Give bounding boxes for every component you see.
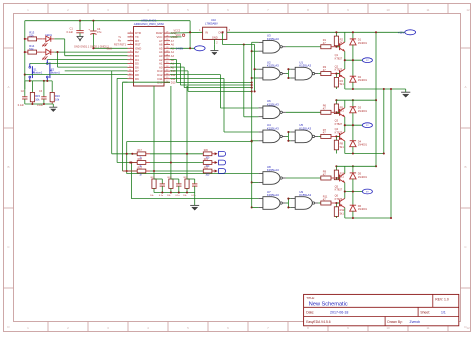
- transistor Q1: [336, 46, 339, 48]
- junction dot v190 gnd: [189, 47, 191, 49]
- wire U8 out: [286, 177, 321, 179]
- junction dots bases: [335, 46, 337, 75]
- wire mid node: [345, 124, 363, 126]
- svg-text:2: 2: [67, 8, 69, 12]
- svg-text:10: 10: [386, 326, 390, 330]
- junction dots bus2: [254, 68, 256, 92]
- svg-text:300: 300: [206, 175, 211, 177]
- svg-text:REV: 1.0: REV: 1.0: [435, 298, 449, 302]
- resistor R8: [335, 136, 337, 140]
- wire D13 down: [170, 71, 252, 92]
- wire D4 row: [47, 59, 127, 61]
- ground under C1: [77, 36, 84, 41]
- junction dots mid: [344, 124, 354, 126]
- svg-text:KT827: KT827: [335, 56, 343, 60]
- svg-text:C: C: [464, 245, 467, 249]
- junction dots bus: [251, 50, 253, 208]
- wire GND net: [93, 47, 127, 49]
- wire D10 stub: [123, 81, 171, 83]
- svg-text:R17: R17: [138, 150, 143, 152]
- svg-text:27: 27: [166, 32, 168, 34]
- svg-text:KT973: KT973: [335, 68, 343, 72]
- wire U9 out: [318, 202, 321, 204]
- svg-text:KT973: KT973: [335, 197, 343, 201]
- wire RC top link: [171, 178, 179, 180]
- svg-text:A5: A5: [171, 47, 175, 50]
- svg-text:23: 23: [166, 47, 168, 49]
- svg-text:OUT: OUT: [218, 31, 224, 35]
- svg-text:K155LA3: K155LA3: [267, 64, 279, 68]
- wire A5 to EN: [170, 47, 195, 49]
- wire couple: [286, 132, 291, 141]
- svg-text:1N4001: 1N4001: [358, 207, 368, 211]
- svg-text:Button1: Button1: [33, 70, 42, 74]
- resistor R15: [31, 81, 33, 93]
- diode D4: [352, 125, 354, 141]
- wire mid node: [345, 191, 363, 193]
- svg-text:+: +: [88, 27, 90, 31]
- wire input bus: [252, 42, 259, 207]
- nand gate U5: [291, 130, 319, 143]
- svg-text:10k: 10k: [35, 97, 40, 101]
- svg-text:1k: 1k: [139, 175, 142, 177]
- svg-text:0.1uF: 0.1uF: [67, 30, 74, 34]
- wire RC tap: [153, 86, 155, 179]
- svg-text:5k1: 5k1: [340, 145, 345, 149]
- wire base node2: [336, 135, 339, 137]
- junction dots debounce rail: [31, 103, 45, 105]
- wire rail3: [336, 165, 376, 167]
- svg-text:10k: 10k: [183, 195, 187, 197]
- wire U1 out: [318, 73, 321, 75]
- svg-text:KT973: KT973: [335, 130, 343, 134]
- junction dots row feeds: [126, 140, 253, 172]
- wire bus v122: [123, 82, 138, 171]
- net port OUT3: [215, 170, 218, 173]
- resistor R18: [137, 161, 146, 165]
- svg-text:R22: R22: [168, 177, 173, 179]
- wire mid node: [345, 59, 363, 61]
- wire RC top link: [154, 178, 162, 180]
- svg-text:10k: 10k: [150, 195, 154, 197]
- svg-text:47u: 47u: [97, 30, 102, 34]
- svg-text:New Schematic: New Schematic: [309, 302, 348, 308]
- diode D2: [352, 60, 354, 76]
- svg-text:20: 20: [166, 58, 168, 60]
- resistor R21: [203, 161, 212, 165]
- svg-text:12: 12: [129, 73, 131, 75]
- svg-text:10k: 10k: [55, 97, 60, 101]
- wire LED1 to bus: [54, 38, 64, 40]
- svg-text:RST RST1: RST RST1: [114, 44, 127, 47]
- svg-text:11: 11: [426, 8, 429, 12]
- wire vcc to gates: [223, 32, 255, 91]
- nand gate U7: [258, 197, 286, 210]
- transistor Q3: [336, 111, 339, 113]
- wire U6 out: [286, 111, 321, 113]
- resistor R13: [28, 37, 37, 41]
- wire gnd rail2: [345, 153, 384, 155]
- wire base node: [336, 177, 339, 179]
- svg-text:1N4001: 1N4001: [358, 109, 368, 113]
- junction dot D3 branch: [56, 51, 58, 53]
- resistor RC R23: [185, 179, 189, 188]
- svg-text:K155LA3: K155LA3: [267, 168, 279, 172]
- nand gate U3: [258, 40, 286, 53]
- diode D3: [352, 100, 354, 107]
- svg-text:D: D: [7, 325, 10, 329]
- button S1: [29, 63, 35, 81]
- wire row1 to U8: [127, 142, 259, 174]
- ground main: [401, 89, 410, 97]
- resistor R2: [335, 32, 337, 36]
- svg-text:GND: GND: [106, 47, 112, 50]
- nand gate U6: [258, 106, 286, 119]
- svg-text:9: 9: [347, 8, 349, 12]
- junction dot corner: [221, 31, 244, 45]
- svg-text:21: 21: [166, 54, 168, 56]
- junction dots rail: [335, 31, 354, 33]
- wire U2 upper feed: [255, 68, 259, 70]
- resistor R17: [137, 152, 146, 156]
- svg-text:6: 6: [130, 51, 131, 53]
- wire row: [150, 153, 203, 155]
- ground debounce: [49, 104, 57, 112]
- ground RC: [190, 193, 199, 211]
- svg-text:12: 12: [466, 8, 470, 12]
- wire D11 to U4: [170, 78, 258, 132]
- junction dot tap: [170, 161, 172, 163]
- wire bus stub: [252, 50, 259, 52]
- svg-text:Drawn By:: Drawn By:: [387, 320, 402, 324]
- wire RC gnd rail: [154, 192, 195, 194]
- wire base node: [336, 111, 339, 113]
- junction dots 12bus: [375, 31, 377, 167]
- svg-text:24: 24: [166, 43, 168, 45]
- wire bus stub: [252, 206, 259, 208]
- svg-text:6: 6: [227, 8, 229, 12]
- resistor R4: [335, 74, 337, 78]
- svg-text:10k: 10k: [167, 195, 171, 197]
- svg-text:R22: R22: [204, 167, 209, 169]
- svg-text:16: 16: [166, 73, 168, 75]
- resistor R14: [28, 50, 37, 54]
- svg-text:D9: D9: [135, 77, 139, 81]
- resistor R6: [321, 110, 331, 114]
- wire base node2: [336, 202, 339, 204]
- svg-text:Tx: Tx: [118, 36, 122, 39]
- wire bus stub: [252, 77, 259, 79]
- svg-text:R20: R20: [204, 150, 209, 152]
- svg-text:9: 9: [130, 62, 131, 64]
- svg-text:R23: R23: [184, 177, 189, 179]
- nand gate U9: [291, 197, 319, 210]
- capacitor C6: [178, 179, 180, 184]
- svg-text:K155LA3: K155LA3: [267, 193, 279, 197]
- svg-text:18: 18: [166, 66, 168, 68]
- svg-text:4: 4: [147, 326, 149, 330]
- net port OUT1: [215, 152, 218, 155]
- svg-text:10: 10: [386, 8, 390, 12]
- svg-text:KT827: KT827: [335, 122, 343, 126]
- wire D5 row: [30, 62, 128, 64]
- wire D3 row: [65, 55, 128, 57]
- wire U3 out: [286, 46, 321, 48]
- svg-text:GND GND1.1 GND2.1 GND2.2: GND GND1.1 GND2.1 GND2.2: [74, 45, 109, 48]
- capacitor C2: [24, 95, 26, 97]
- ARDUINO1 left pins: [128, 31, 142, 81]
- svg-text:K155LA3: K155LA3: [267, 126, 279, 130]
- svg-text:C3: C3: [39, 90, 43, 93]
- net port 3Y: [362, 189, 372, 194]
- wire +12 rail: [227, 31, 405, 33]
- svg-text:4: 4: [147, 8, 149, 12]
- VCC net flag: [170, 36, 182, 38]
- svg-text:1N4001: 1N4001: [358, 175, 368, 179]
- wire row: [150, 162, 203, 164]
- svg-text:0.1u: 0.1u: [191, 195, 196, 197]
- wire bus v117: [117, 78, 137, 162]
- wire A1 down: [170, 63, 252, 85]
- wire button bottom rail: [25, 80, 52, 82]
- svg-text:C: C: [7, 245, 10, 249]
- wire bus stub: [252, 140, 259, 142]
- nand gate U2: [258, 67, 286, 80]
- resistor R20: [203, 152, 212, 156]
- svg-text:TITLE:: TITLE:: [306, 296, 315, 300]
- LED LED1a: [42, 36, 54, 46]
- diode D5: [352, 166, 354, 173]
- transistor Q5: [336, 177, 339, 179]
- svg-text:R21: R21: [204, 159, 209, 161]
- svg-text:4: 4: [130, 43, 131, 45]
- svg-text:11: 11: [129, 70, 131, 72]
- wire gnd bus a: [383, 89, 385, 154]
- junction dots mid: [344, 59, 354, 61]
- wire D7 row: [65, 70, 128, 72]
- junction dots bases: [335, 111, 337, 137]
- diode D6: [352, 192, 354, 206]
- wire RAW to reg: [170, 21, 203, 49]
- wire D9 row: [117, 77, 127, 79]
- capacitor C5: [161, 179, 163, 184]
- svg-text:22: 22: [166, 51, 168, 53]
- wire D12 to U6: [170, 75, 258, 108]
- svg-text:KT827: KT827: [335, 188, 343, 192]
- svg-text:A3: A3: [171, 55, 175, 58]
- svg-text:VCC2: VCC2: [174, 30, 181, 33]
- wire left col down: [24, 81, 26, 95]
- svg-text:EasyEDA V4.5.6: EasyEDA V4.5.6: [306, 320, 331, 324]
- net port OUT2: [215, 161, 218, 164]
- wire RC tap: [186, 86, 188, 179]
- wire gnd rail3: [345, 217, 391, 219]
- svg-text:5: 5: [130, 47, 131, 49]
- svg-text:1/1: 1/1: [441, 311, 446, 315]
- svg-text:K155LA3: K155LA3: [299, 64, 311, 68]
- junction dots couple: [287, 68, 289, 79]
- svg-text:K155LA3: K155LA3: [267, 37, 279, 41]
- capacitor C3: [43, 81, 45, 97]
- voltage regulator U10: [199, 27, 230, 44]
- wire RC top link: [187, 178, 195, 180]
- svg-text:VCC: VCC: [176, 33, 182, 37]
- svg-text:5: 5: [187, 8, 189, 12]
- wire row2 to U7: [131, 163, 258, 199]
- junction dots gnd: [352, 88, 392, 219]
- svg-text:C4: C4: [97, 27, 101, 31]
- svg-text:1: 1: [27, 326, 29, 330]
- junction dot tap: [153, 170, 155, 172]
- svg-text:K155LA3: K155LA3: [299, 126, 311, 130]
- svg-text:5k1: 5k1: [340, 82, 345, 86]
- transistor Q4: [336, 135, 339, 137]
- svg-text:1: 1: [27, 8, 29, 12]
- junction dots rc rail: [161, 191, 188, 193]
- svg-text:R18: R18: [138, 159, 143, 161]
- net port 1Y: [362, 58, 372, 63]
- svg-text:A4: A4: [171, 51, 175, 54]
- svg-text:0.1u: 0.1u: [159, 195, 164, 197]
- wire A0 down: [170, 67, 252, 88]
- nand gate U1: [291, 67, 319, 80]
- resistor RC R22: [169, 179, 173, 188]
- resistor RC R21: [152, 179, 156, 188]
- resistor R1: [321, 45, 331, 49]
- svg-text:A6: A6: [171, 44, 175, 47]
- wire h141: [127, 141, 252, 143]
- svg-text:GND: GND: [212, 36, 218, 40]
- svg-text:Button1: Button1: [51, 70, 60, 74]
- svg-text:26: 26: [166, 35, 168, 37]
- svg-text:8: 8: [307, 8, 309, 12]
- svg-text:A: A: [7, 85, 9, 89]
- svg-text:A7: A7: [171, 40, 175, 43]
- capacitor C4: [88, 21, 96, 49]
- wire U6 lower feed: [244, 45, 259, 117]
- wire base node2: [336, 73, 339, 75]
- right net labels: [171, 32, 178, 84]
- svg-text:10: 10: [129, 66, 131, 68]
- svg-text:R19: R19: [138, 167, 143, 169]
- svg-text:0.1uF: 0.1uF: [18, 104, 25, 107]
- svg-text:15: 15: [166, 77, 168, 79]
- nand gate U4: [258, 130, 286, 143]
- svg-text:3: 3: [130, 39, 131, 41]
- ground U10: [210, 44, 218, 55]
- svg-text:IN: IN: [205, 31, 208, 35]
- svg-text:D10: D10: [171, 82, 176, 85]
- svg-text:R21: R21: [151, 177, 156, 179]
- svg-text:ARDUINO_PRO_MINI: ARDUINO_PRO_MINI: [134, 22, 164, 26]
- svg-text:3: 3: [107, 326, 109, 330]
- svg-text:1: 1: [130, 32, 131, 34]
- LED LED1b: [42, 49, 54, 59]
- wire rail2: [336, 99, 376, 101]
- junction dots button rail: [29, 80, 49, 82]
- svg-text:6: 6: [227, 326, 229, 330]
- wire gnd bus b: [390, 89, 392, 218]
- svg-text:2: 2: [216, 43, 218, 45]
- transistor Q6: [336, 202, 339, 204]
- svg-text:+12v: +12v: [398, 31, 405, 35]
- svg-text:K155LA3: K155LA3: [267, 102, 279, 106]
- resistor R3: [321, 72, 331, 76]
- svg-text:19: 19: [166, 62, 168, 64]
- resistor R22: [203, 169, 212, 173]
- junction dots couple: [287, 131, 289, 142]
- wire D6 row: [58, 52, 128, 67]
- capacitor C7: [194, 179, 196, 184]
- svg-text:3: 3: [107, 8, 109, 12]
- junction dots left rail: [24, 38, 26, 76]
- svg-text:7: 7: [267, 326, 269, 330]
- svg-text:14 EN: 14 EN: [176, 47, 184, 51]
- svg-text:C2: C2: [21, 90, 25, 93]
- capacitor C1: [76, 21, 83, 37]
- ARDUINO1 right pins: [156, 31, 170, 84]
- junction dots top rail: [79, 20, 95, 22]
- junction dot tap: [186, 153, 188, 155]
- svg-text:B: B: [7, 165, 9, 169]
- junction dots couple: [287, 198, 289, 209]
- wire gnd rail1: [345, 88, 406, 90]
- svg-text:Date:: Date:: [306, 311, 314, 315]
- wire debounce gnd rail: [25, 103, 54, 105]
- wire bus stub: [252, 181, 259, 183]
- resistor R19: [137, 169, 146, 173]
- svg-text:2: 2: [130, 35, 131, 37]
- svg-text:Rx: Rx: [118, 40, 122, 43]
- junction dot RAW: [189, 31, 191, 33]
- svg-text:U10: U10: [211, 18, 216, 22]
- junction dots mid: [344, 190, 354, 192]
- resistor R9: [321, 176, 331, 180]
- junction dots rail: [335, 165, 354, 167]
- svg-text:1N4001: 1N4001: [358, 78, 368, 82]
- svg-text:2: 2: [67, 326, 69, 330]
- svg-text:7: 7: [267, 8, 269, 12]
- wire couple: [286, 69, 291, 78]
- junction dots bases: [335, 177, 337, 204]
- junction dots rail: [335, 99, 354, 101]
- svg-text:13: 13: [129, 77, 131, 79]
- svg-text:9: 9: [347, 326, 349, 330]
- svg-text:5: 5: [187, 326, 189, 330]
- wire A2 down: [170, 60, 252, 83]
- svg-text:A: A: [464, 85, 466, 89]
- diode D1: [352, 32, 354, 39]
- resistor R10: [335, 166, 337, 170]
- nand gate U8: [258, 172, 286, 185]
- wire top VCC rail: [25, 21, 190, 89]
- svg-text:K155LA3: K155LA3: [299, 193, 311, 197]
- wire D2 row: [54, 51, 127, 53]
- resistor R7: [321, 134, 331, 138]
- resistor R11: [321, 201, 331, 205]
- svg-text:0.1u: 0.1u: [175, 195, 180, 197]
- svg-text:1N4001: 1N4001: [358, 41, 368, 45]
- wire D8 row: [25, 74, 128, 76]
- svg-text:8: 8: [130, 58, 131, 60]
- svg-text:17: 17: [166, 70, 168, 72]
- svg-text:Sheet:: Sheet:: [420, 311, 430, 315]
- resistor R12: [335, 203, 337, 207]
- wire couple: [286, 199, 291, 208]
- resistor R5: [335, 100, 337, 104]
- svg-text:L7805ABV: L7805ABV: [205, 22, 218, 26]
- svg-text:2017-06-18: 2017-06-18: [330, 311, 348, 315]
